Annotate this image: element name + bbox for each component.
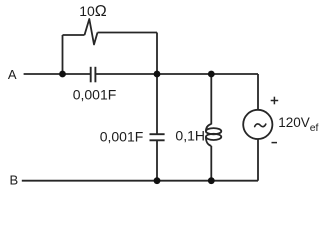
wire capacitor C2 branch upper xyxy=(156,74,158,134)
svg-text:0,001F: 0,001F xyxy=(73,87,117,103)
wire source branch lower xyxy=(257,139,259,181)
capacitor C1 right plate xyxy=(94,67,96,83)
wire resistor loop left vertical xyxy=(62,35,64,74)
wire inductor L1 branch upper xyxy=(210,74,212,124)
wire B xyxy=(22,180,258,182)
inductor L1 entry curve xyxy=(206,124,211,131)
wire source branch upper xyxy=(257,74,259,110)
junction dot node A / R1 left xyxy=(59,71,66,78)
svg-text:10Ω: 10Ω xyxy=(79,3,107,20)
svg-text:0,001F: 0,001F xyxy=(100,128,144,144)
junction dot L1 top xyxy=(208,71,215,78)
svg-text:A: A xyxy=(8,67,17,82)
wire A right segment xyxy=(95,73,258,75)
svg-text:120Vef: 120Vef xyxy=(278,115,318,134)
minus sign xyxy=(272,142,278,144)
capacitor C2 top plate xyxy=(150,133,165,135)
source V1 sine symbol xyxy=(255,124,266,127)
inductor L1 loop 1 xyxy=(206,128,221,134)
capacitor C1 left plate xyxy=(90,67,92,83)
wire A left segment xyxy=(24,73,91,75)
wire inductor L1 branch lower xyxy=(210,146,212,181)
source V1 circle xyxy=(243,110,272,139)
wire resistor loop top left xyxy=(63,34,85,36)
wire capacitor C2 branch lower xyxy=(156,140,158,180)
inductor L1 loop 2 xyxy=(206,134,221,140)
resistor R1 zigzag xyxy=(85,19,98,45)
plus sign horizontal xyxy=(271,100,279,102)
svg-text:B: B xyxy=(9,173,18,188)
inductor L1 exit curve xyxy=(206,137,211,146)
wire resistor loop right vertical xyxy=(156,33,158,75)
junction dot C2 bottom xyxy=(154,177,161,184)
junction dot L1 bottom xyxy=(208,177,215,184)
svg-text:0,1H: 0,1H xyxy=(175,127,205,143)
capacitor C2 bottom plate xyxy=(150,139,165,141)
wire resistor loop top right xyxy=(98,32,158,34)
plus sign vertical xyxy=(273,97,275,105)
junction dot R1 right / C2 top xyxy=(154,71,161,78)
